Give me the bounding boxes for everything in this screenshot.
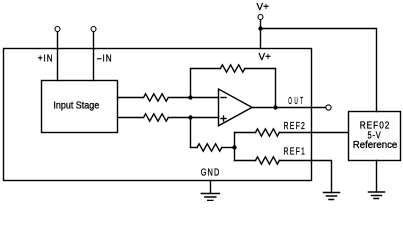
ground (GND pin) bbox=[201, 194, 219, 201]
wire +IN terminal to Input Stage bbox=[57, 32, 59, 81]
ground (REF1) bbox=[324, 193, 340, 200]
resistor R4 gain bbox=[197, 144, 222, 151]
wire gain row lead bbox=[191, 147, 198, 149]
svg-text:+IN: +IN bbox=[38, 53, 54, 64]
svg-text:V+: V+ bbox=[257, 2, 270, 13]
svg-text:Reference: Reference bbox=[353, 140, 398, 151]
wire REF2 row to REF02 block bbox=[279, 132, 348, 134]
wire V+ across to REF02 supply column bbox=[261, 29, 377, 112]
wire R4 to reference node bbox=[222, 147, 235, 149]
wire feedback top left segment bbox=[191, 68, 221, 70]
resistor R5 REF2 bbox=[256, 129, 280, 136]
op-amp plus sign bbox=[221, 118, 226, 120]
resistor R2 bbox=[144, 114, 169, 121]
wire reference node up to REF2 row bbox=[234, 133, 236, 148]
block REF02 bbox=[349, 112, 401, 161]
wire Input Stage lower output to op-amp non-inverting input bbox=[118, 117, 144, 119]
op-amp A1 bbox=[219, 89, 253, 126]
wire reference node down to REF1 row bbox=[234, 148, 236, 161]
svg-text:OUT: OUT bbox=[288, 96, 305, 107]
wire op-amp output to OUT terminal bbox=[252, 107, 325, 109]
terminal OUT bbox=[326, 105, 331, 110]
ground (REF02) bbox=[369, 192, 385, 199]
node reference divider bbox=[232, 145, 236, 149]
svg-text:–IN: –IN bbox=[97, 53, 113, 64]
op-amp minus sign bbox=[221, 97, 226, 99]
wire REF1 row to ground drop bbox=[279, 161, 331, 193]
resistor R1 bbox=[144, 94, 169, 101]
wire REF02 bottom to ground bbox=[376, 161, 378, 193]
terminal +IN bbox=[55, 27, 60, 32]
node non-inverting input bbox=[188, 115, 192, 119]
node V+ junction bbox=[258, 26, 262, 30]
wire feedback right vertical to output node bbox=[275, 69, 277, 108]
wire V+ terminal down into package bbox=[260, 20, 262, 49]
svg-text:GND: GND bbox=[201, 167, 221, 178]
wire REF1 row left segment bbox=[235, 160, 256, 162]
svg-text:Input Stage: Input Stage bbox=[53, 101, 99, 112]
node inverting input bbox=[188, 95, 192, 99]
resistor R6 REF1 bbox=[256, 157, 280, 164]
wire feedback top right segment bbox=[245, 68, 276, 70]
outer boundary box (amplifier package) bbox=[4, 49, 312, 181]
wire feedback left vertical bbox=[190, 69, 192, 98]
node output/feedback bbox=[273, 105, 277, 109]
svg-text:REF2: REF2 bbox=[284, 121, 307, 132]
resistor R3 feedback bbox=[220, 65, 244, 72]
wire Input Stage upper output to op-amp inverting input bbox=[118, 97, 144, 99]
terminal -IN bbox=[91, 27, 96, 32]
wire GND pin stem bbox=[210, 181, 212, 194]
wire REF2 row left segment bbox=[235, 132, 256, 134]
terminal V+ bbox=[258, 15, 263, 20]
svg-text:V+: V+ bbox=[259, 52, 272, 63]
svg-text:REF1: REF1 bbox=[284, 146, 307, 157]
wire -IN terminal to Input Stage bbox=[93, 32, 95, 81]
block Input Stage bbox=[42, 81, 118, 133]
wire R1 to inverting node bbox=[168, 97, 218, 99]
wire non-inverting node down to gain resistor row bbox=[190, 118, 192, 148]
wire R2 to non-inverting node bbox=[168, 117, 218, 119]
